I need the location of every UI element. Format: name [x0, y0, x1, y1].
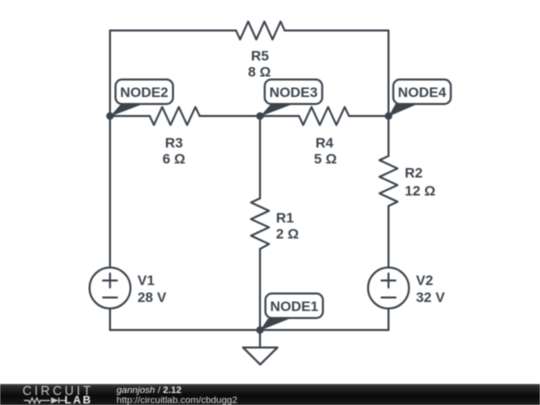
resistor R4	[299, 107, 349, 125]
wire middle vertical above R1	[259, 116, 261, 198]
wire middle horizontal left	[110, 115, 150, 117]
wire V2 bottom	[388, 309, 390, 331]
wire V1 bottom	[109, 309, 111, 331]
svg-text:V2: V2	[416, 272, 433, 288]
svg-text:http://circuitlab.com/cbdugg2: http://circuitlab.com/cbdugg2	[117, 395, 238, 405]
logo diode triangle	[51, 397, 59, 403]
wire middle vertical below R1	[259, 249, 261, 330]
V1 minus sign	[103, 297, 117, 299]
svg-text:28 V: 28 V	[138, 289, 167, 305]
svg-text:32 V: 32 V	[416, 289, 445, 305]
wire top horizontal left of R5	[110, 30, 236, 32]
wire right vertical below R2	[388, 206, 390, 268]
svg-text:6 Ω: 6 Ω	[163, 151, 186, 167]
V2 minus sign	[382, 297, 396, 299]
wire middle horizontal center	[200, 115, 299, 117]
wire top horizontal right of R5	[285, 30, 389, 32]
svg-text:5 Ω: 5 Ω	[314, 151, 337, 167]
NODE3 tail	[260, 104, 293, 117]
node dot NODE1	[256, 326, 264, 334]
svg-text:LAB: LAB	[65, 395, 93, 405]
node dot NODE3	[256, 112, 264, 120]
resistor R3	[150, 107, 200, 125]
wire middle horizontal right	[349, 115, 389, 117]
resistor R1	[251, 198, 269, 249]
node label NODE1	[265, 294, 323, 319]
svg-text:2 Ω: 2 Ω	[276, 226, 299, 242]
wire right vertical upper	[388, 31, 390, 157]
voltage source V2	[368, 268, 409, 309]
svg-text:R3: R3	[165, 135, 183, 151]
node junction dots	[106, 104, 417, 334]
svg-text:V1: V1	[138, 272, 155, 288]
node label NODE3	[265, 80, 323, 105]
svg-text:NODE4: NODE4	[398, 84, 446, 100]
svg-text:R2: R2	[405, 165, 423, 181]
NODE1 tail	[260, 319, 290, 331]
V2 plus sign	[382, 274, 396, 288]
svg-text:NODE1: NODE1	[270, 298, 318, 314]
svg-text:R5: R5	[251, 48, 269, 64]
svg-text:R4: R4	[316, 135, 334, 151]
resistor R5	[236, 22, 285, 40]
logo resistor + diode symbol	[24, 398, 66, 404]
svg-text:12 Ω: 12 Ω	[405, 183, 436, 199]
ground	[243, 348, 278, 365]
node dot NODE4	[385, 112, 393, 120]
node dot NODE2	[106, 112, 114, 120]
svg-text:R1: R1	[276, 210, 294, 226]
V1 plus sign	[103, 274, 117, 288]
svg-text:NODE2: NODE2	[120, 84, 168, 100]
wire top-left vertical	[109, 31, 111, 268]
svg-text:8 Ω: 8 Ω	[248, 64, 271, 80]
NODE4 tail	[389, 104, 418, 117]
wire to ground	[259, 330, 261, 348]
wire bottom horizontal	[110, 329, 389, 331]
node label NODE2	[116, 80, 174, 105]
NODE2 tail	[110, 104, 143, 117]
node label NODE4	[393, 80, 451, 105]
resistor R2	[380, 156, 398, 206]
svg-text:NODE3: NODE3	[269, 84, 317, 100]
voltage source V1	[90, 268, 131, 309]
